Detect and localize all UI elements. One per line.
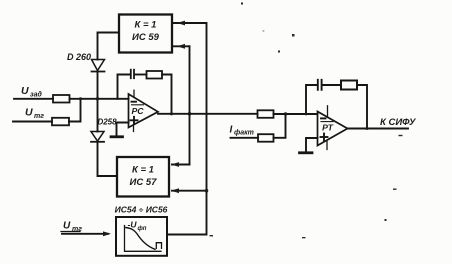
wire D258 to IC57 input <box>98 142 118 176</box>
diode D258 <box>91 132 104 142</box>
node feedback/output junction <box>170 112 173 115</box>
wire Ifakt input <box>231 137 259 139</box>
label Utg <box>25 107 44 121</box>
diode D260 <box>92 60 105 72</box>
wire C1 to R3 <box>135 74 147 76</box>
wire R6 down to RT output <box>357 85 367 129</box>
svg-text:РС: РС <box>131 106 144 116</box>
wire PC output <box>158 113 258 115</box>
wire Uzad input <box>14 98 53 100</box>
resistor R5 <box>258 134 274 142</box>
svg-text:D258: D258 <box>97 118 117 127</box>
op-amp U4 RT <box>318 106 348 150</box>
block U3 K=1 IC57 <box>117 157 169 197</box>
wire PC non-inverting input to ground <box>117 123 129 136</box>
wire R5 up to summing node of RT <box>274 114 286 138</box>
node Ifakt junction <box>284 112 287 115</box>
wire R1 to opamp PC inverting input <box>70 98 129 100</box>
wire RT non-inverting input to ground <box>306 138 318 152</box>
svg-text:К = 1: К = 1 <box>132 165 154 176</box>
svg-text:К СИФУ: К СИФУ <box>380 117 417 128</box>
capacitor C2 <box>318 80 322 90</box>
wire RT feedback tap <box>306 85 317 114</box>
label Utg bottom <box>63 221 82 234</box>
wire line B: ramp to IC59 upper input, IC57 lower input <box>167 23 207 235</box>
ground for PC <box>111 135 123 138</box>
block U5 ramp generator IC54-56 <box>116 217 167 256</box>
resistor R3 <box>147 71 163 79</box>
op-amp U1 PC <box>129 90 159 131</box>
block U2 K=1 IC59 <box>119 15 172 53</box>
svg-text:U: U <box>63 221 71 232</box>
wire R2 up to summing node <box>69 99 81 122</box>
node RT output / feedback junction <box>366 127 369 130</box>
resistor R2 <box>52 118 69 126</box>
svg-text:тг: тг <box>34 113 44 120</box>
wire IC59 output to diode column <box>98 33 120 60</box>
wire arrow into IC57 lower input <box>172 190 207 192</box>
wire arrow into IC59 lower input <box>172 45 190 47</box>
svg-text:D 260: D 260 <box>67 52 91 62</box>
resistor R1 <box>53 95 70 103</box>
svg-text:К = 1: К = 1 <box>135 20 157 31</box>
svg-text:ИС 57: ИС 57 <box>130 177 158 188</box>
svg-text:фп: фп <box>138 225 147 232</box>
wire Utg input <box>13 121 52 123</box>
svg-text:U: U <box>25 107 33 119</box>
wire R3 down to PC output <box>162 75 172 114</box>
label Uzad <box>21 85 42 99</box>
resistor R6 <box>341 81 357 90</box>
node junction diode column / summing <box>96 97 99 100</box>
wire line A: PC output to IC59 lower input and IC57 upper input <box>189 46 191 164</box>
wire Utg label underline <box>61 231 80 233</box>
node line A / output junction <box>188 112 192 116</box>
svg-text:U: U <box>21 85 29 97</box>
wire RT output <box>348 128 409 130</box>
wire arrow into IC57 upper input <box>172 164 190 166</box>
wire C2 to R6 <box>323 84 342 86</box>
svg-text:I: I <box>230 125 233 136</box>
wire diode column D260 to D258 <box>97 72 99 132</box>
node junction Utg/Uzad <box>79 97 82 100</box>
wire R4 to RT inverting input <box>274 113 318 115</box>
capacitor C1 <box>131 70 134 79</box>
specks (scan artifacts) <box>210 3 403 239</box>
node line B / IC57 junction <box>205 189 209 193</box>
wire Utg to ramp generator with arrow <box>62 233 108 235</box>
node RT feedback tap <box>305 113 308 116</box>
svg-text:ИС54 ÷ ИС56: ИС54 ÷ ИС56 <box>115 205 168 215</box>
wire PC feedback tap <box>118 75 130 99</box>
ground for RT <box>300 151 313 154</box>
svg-text:РТ: РТ <box>322 123 333 133</box>
svg-text:ИС 59: ИС 59 <box>132 32 160 43</box>
svg-text:факт: факт <box>234 130 254 137</box>
resistor R4 on PC output line <box>258 110 274 118</box>
label Ifakt <box>230 125 254 137</box>
svg-text:зад: зад <box>30 91 42 99</box>
